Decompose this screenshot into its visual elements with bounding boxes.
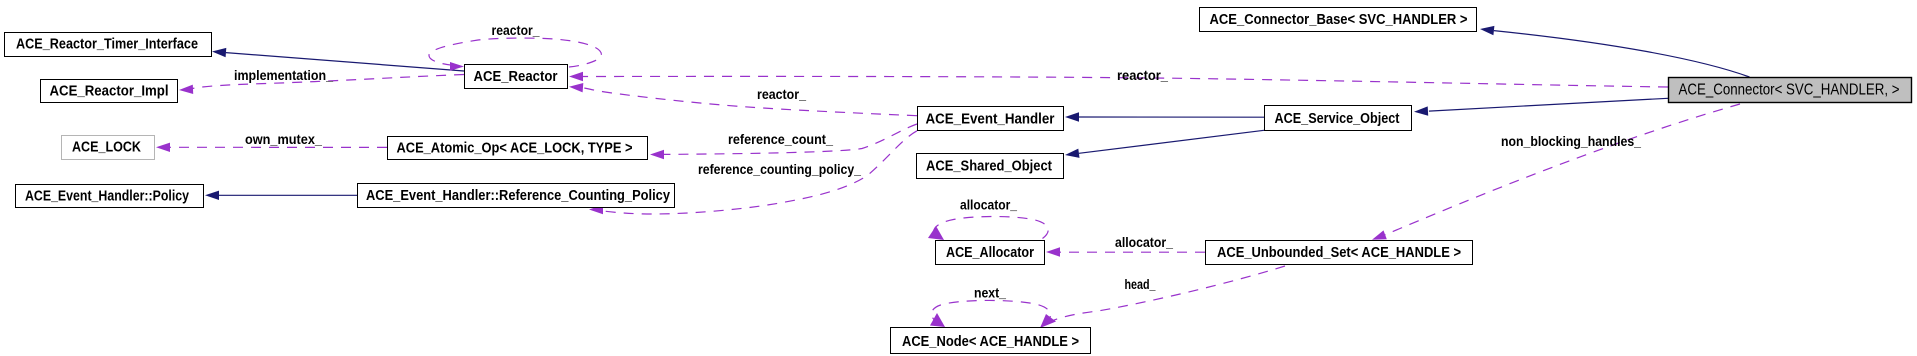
wire: navy inheritance ACE_Service_Object to ACE_Event_Handler: [1079, 116, 1264, 118]
svg-text:ACE_LOCK: ACE_LOCK: [72, 140, 141, 156]
svg-text:reference_counting_policy_: reference_counting_policy_: [698, 161, 861, 177]
arrowhead purple long reactor_ at ACE_Reactor: [569, 72, 583, 81]
svg-text:allocator_: allocator_: [1115, 234, 1173, 250]
wire: dashed reference_counting_policy_ ACE_Event_Handler to Reference_Counting_Policy: [603, 131, 917, 214]
svg-text:ACE_Allocator: ACE_Allocator: [946, 245, 1034, 261]
arrowhead navy at ACE_Event_Handler: [1065, 112, 1079, 121]
node ACE_Reactor_Impl: [41, 80, 178, 103]
svg-text:ACE_Service_Object: ACE_Service_Object: [1275, 111, 1400, 127]
arrowhead navy at ACE_Shared_Object: [1065, 149, 1080, 158]
svg-text:ACE_Shared_Object: ACE_Shared_Object: [926, 159, 1052, 175]
svg-text:reference_count_: reference_count_: [728, 131, 833, 147]
node ACE_Event_Handler::Policy: [16, 185, 204, 208]
node ACE_Connector< SVC_HANDLER, > (main, gray): [1669, 78, 1912, 103]
svg-text:allocator_: allocator_: [960, 197, 1017, 213]
svg-text:ACE_Reactor_Impl: ACE_Reactor_Impl: [50, 84, 169, 100]
wire: navy inheritance ACE_Service_Object to ACE_Shared_Object: [1079, 130, 1264, 153]
wire: dashed non_blocking_handles_ ACE_Connector to ACE_Unbounded_Set: [1385, 104, 1740, 235]
arrowhead navy at ACE_Connector_Base: [1480, 26, 1494, 35]
wire: navy inheritance Reference_Counting_Policy to ACE_Event_Handler::Policy: [219, 194, 357, 196]
arrowhead purple self-loop into ACE_Reactor: [450, 62, 464, 71]
arrowhead purple head_ at ACE_Node: [1040, 314, 1056, 328]
wire: dashed self-loop next_ on ACE_Node: [932, 300, 1051, 323]
wire: dashed head_ ACE_Unbounded_Set to ACE_Node: [1048, 266, 1285, 323]
arrowhead navy at ACE_Reactor_Timer_Interface: [212, 48, 226, 57]
arrowhead purple reference_count_ at ACE_Atomic_Op: [650, 150, 664, 159]
svg-text:ACE_Event_Handler::Reference_C: ACE_Event_Handler::Reference_Counting_Po…: [366, 188, 670, 204]
wire: dashed reference_count_ ACE_Event_Handler to ACE_Atomic_Op: [664, 124, 917, 154]
node ACE_Service_Object: [1265, 106, 1412, 131]
svg-text:ACE_Connector_Base< SVC_HANDLE: ACE_Connector_Base< SVC_HANDLER >: [1210, 12, 1468, 28]
wire: dashed implementation_ ACE_Reactor to ACE_Reactor_Impl: [191, 75, 464, 89]
node ACE_Reactor_Timer_Interface: [5, 33, 212, 57]
svg-text:reactor_: reactor_: [1117, 67, 1168, 83]
arrowhead purple allocator_ at ACE_Allocator: [1046, 247, 1060, 256]
svg-text:non_blocking_handles_: non_blocking_handles_: [1501, 133, 1641, 149]
wire: dashed allocator_ ACE_Unbounded_Set to ACE_Allocator: [1060, 251, 1205, 253]
svg-text:ACE_Node< ACE_HANDLE >: ACE_Node< ACE_HANDLE >: [902, 334, 1079, 350]
wire: navy inheritance ACE_Connector to ACE_Service_Object: [1429, 98, 1668, 111]
wire: dashed long reactor_ ACE_Connector to ACE_Reactor: [583, 76, 1668, 87]
arrowhead purple short reactor_ at ACE_Reactor: [569, 83, 583, 92]
node ACE_Connector_Base< SVC_HANDLER >: [1200, 8, 1477, 32]
svg-text:ACE_Event_Handler::Policy: ACE_Event_Handler::Policy: [25, 189, 189, 205]
node ACE_Reactor: [465, 65, 568, 89]
node ACE_Event_Handler::Reference_Counting_Policy: [358, 184, 675, 208]
svg-text:ACE_Reactor: ACE_Reactor: [474, 69, 558, 85]
arrowhead purple reference_counting_policy_: [589, 205, 603, 214]
node ACE_LOCK: [62, 136, 155, 160]
arrowhead purple non_blocking_handles_ at ACE_Unbounded_Set: [1372, 230, 1387, 239]
svg-text:ACE_Connector< SVC_HANDLER, >: ACE_Connector< SVC_HANDLER, >: [1679, 82, 1900, 99]
arrowhead navy at ACE_Service_Object: [1414, 106, 1428, 115]
svg-text:reactor_: reactor_: [757, 86, 806, 102]
node ACE_Shared_Object: [917, 154, 1064, 179]
node ACE_Node< ACE_HANDLE >: [891, 328, 1091, 354]
arrowhead purple self-loop into ACE_Allocator: [928, 226, 944, 240]
svg-text:reactor_: reactor_: [492, 22, 540, 38]
node ACE_Event_Handler: [918, 107, 1064, 131]
wire: dashed self-loop reactor_ on ACE_Reactor: [429, 38, 601, 67]
node ACE_Atomic_Op< ACE_LOCK, TYPE >: [388, 137, 648, 160]
svg-text:ACE_Unbounded_Set< ACE_HANDLE: ACE_Unbounded_Set< ACE_HANDLE >: [1217, 245, 1461, 261]
wire: dashed own_mutex_ ACE_Atomic_Op to ACE_LOCK: [170, 146, 387, 148]
svg-text:next_: next_: [974, 285, 1006, 301]
arrowhead purple at ACE_Reactor_Impl: [179, 85, 193, 94]
node ACE_Allocator: [936, 241, 1045, 265]
arrowhead navy at ACE_Event_Handler::Policy: [205, 191, 219, 200]
node ACE_Unbounded_Set< ACE_HANDLE >: [1206, 241, 1473, 265]
wire: dashed self-loop allocator_ on ACE_Allocator: [934, 217, 1048, 239]
wire: navy inheritance ACE_Reactor to ACE_Reactor_Timer_Interface: [226, 53, 464, 71]
arrowhead purple own_mutex_ at ACE_LOCK: [156, 143, 170, 152]
svg-text:ACE_Reactor_Timer_Interface: ACE_Reactor_Timer_Interface: [16, 37, 198, 53]
svg-text:ACE_Atomic_Op< ACE_LOCK, TYPE: ACE_Atomic_Op< ACE_LOCK, TYPE >: [397, 141, 633, 157]
svg-text:implementation_: implementation_: [234, 67, 333, 83]
svg-text:head_: head_: [1125, 276, 1156, 292]
svg-text:own_mutex_: own_mutex_: [245, 131, 322, 147]
svg-text:ACE_Event_Handler: ACE_Event_Handler: [926, 112, 1055, 128]
arrowhead purple self-loop into ACE_Node: [930, 313, 945, 327]
wire: navy inheritance ACE_Connector to ACE_Connector_Base: [1494, 31, 1750, 77]
wire: dashed short reactor_ ACE_Event_Handler to ACE_Reactor: [584, 88, 918, 116]
